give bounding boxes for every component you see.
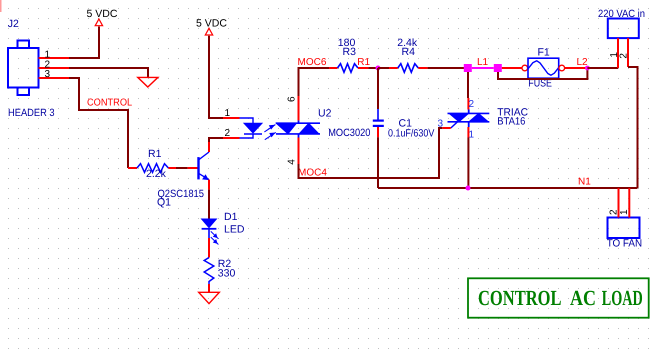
svg-text:2: 2 (618, 53, 629, 59)
power +5V symbol (left) (87, 8, 118, 26)
svg-text:2: 2 (609, 209, 620, 215)
svg-text:Q1: Q1 (157, 197, 171, 209)
wire triac MT1 to N1 (467, 138, 469, 189)
U2 pin 4 (287, 138, 299, 165)
svg-text:L1: L1 (477, 57, 489, 68)
svg-text:N1: N1 (578, 176, 591, 187)
capacitor C1 (373, 109, 435, 140)
svg-text:0.1uF/630V: 0.1uF/630V (388, 128, 434, 140)
wire J2 pin3 to R1 (69, 78, 128, 168)
U2 pin 1 (223, 108, 240, 119)
wire fuse bypass (under fuse) (498, 68, 587, 79)
node L1 junction square A (464, 64, 472, 72)
wire fuse right to L2 (565, 67, 586, 69)
wire L2 to 220VAC pin1 (587, 67, 618, 69)
resistor R3 (329, 37, 368, 72)
wire L1 to triac MT2 (467, 72, 469, 98)
wire J2 pin1 to +5V (69, 27, 99, 59)
J2 pin 1 (39, 50, 70, 61)
connector J2 (8, 41, 39, 96)
node L2 junction (585, 66, 590, 71)
fuse F1 (522, 47, 565, 90)
svg-text:CONTROL: CONTROL (87, 97, 133, 108)
wire C1 to N1 (377, 137, 379, 188)
svg-text:1: 1 (619, 209, 630, 215)
svg-text:MOC3020: MOC3020 (328, 127, 370, 139)
junction N1/triac (466, 186, 471, 191)
resistor R1 (128, 148, 176, 180)
svg-text:AC: AC (570, 286, 596, 310)
wire R4 to L1 (428, 67, 464, 69)
svg-text:LED: LED (224, 223, 245, 235)
wire N1 (378, 187, 638, 189)
junction R3/R4/C1 (376, 66, 381, 71)
svg-text:MOC4: MOC4 (298, 167, 327, 178)
svg-text:TO FAN: TO FAN (607, 238, 642, 250)
svg-text:BTA16: BTA16 (497, 115, 525, 127)
svg-text:R4: R4 (402, 46, 416, 58)
svg-text:5 VDC: 5 VDC (87, 8, 118, 20)
svg-text:2.2k: 2.2k (146, 168, 167, 180)
svg-text:R1: R1 (357, 57, 370, 68)
svg-text:CONTROL: CONTROL (478, 286, 562, 310)
svg-text:6: 6 (287, 96, 298, 102)
svg-text:4: 4 (287, 159, 298, 165)
svg-text:U2: U2 (318, 108, 332, 120)
node L1 junction square B (494, 64, 502, 72)
svg-text:F1: F1 (538, 47, 550, 59)
svg-text:MOC6: MOC6 (298, 57, 327, 68)
transistor Q1 (157, 142, 209, 209)
svg-text:2: 2 (469, 99, 475, 110)
svg-text:2: 2 (225, 128, 231, 139)
svg-text:LOAD: LOAD (602, 286, 643, 310)
resistor R4 (389, 37, 428, 72)
wire U2 pin6 to R3 (net MOC6) (299, 68, 330, 96)
wire 220VAC pin2 down to N1 level (628, 67, 638, 188)
wire R1 to Q1 base (176, 167, 188, 169)
U2 pin 2 (223, 128, 240, 139)
wire J2 pin2 to ground (69, 68, 148, 77)
U2 input LED (240, 118, 263, 138)
wire R3 to junction (368, 67, 378, 69)
svg-text:R1: R1 (148, 148, 162, 160)
svg-text:330: 330 (218, 268, 236, 280)
J2 pin 3 (39, 69, 70, 80)
power +5V symbol (middle) (196, 18, 227, 35)
svg-text:D1: D1 (224, 211, 238, 223)
U2 light arrows (264, 125, 275, 140)
svg-text:HEADER 3: HEADER 3 (8, 107, 55, 119)
svg-text:R3: R3 (343, 46, 357, 58)
svg-text:J2: J2 (8, 18, 19, 30)
svg-text:3: 3 (45, 69, 51, 80)
wire L1 (magenta segment) (472, 67, 494, 69)
wire U2 pin4 to triac gate (net MOC4) (299, 128, 443, 178)
svg-text:5 VDC: 5 VDC (196, 18, 227, 30)
U2 output photo-triac (276, 120, 320, 137)
U2 pin 6 (287, 96, 299, 120)
screen artifact top-left (0, 0, 2, 12)
connector 220 VAC in (598, 8, 645, 68)
D1 light arrows (211, 231, 219, 244)
J2 pin 2 (39, 59, 70, 70)
wire +5V to U2 pin1 (209, 36, 223, 118)
wire junction to R4 (378, 67, 389, 69)
triac BTA16 (438, 98, 529, 141)
svg-text:1: 1 (225, 108, 231, 119)
resistor R2 (204, 258, 235, 293)
ground symbol (near J2) (138, 77, 158, 87)
LED D1 (202, 211, 245, 258)
wire Q1 collector to U2 pin2 (209, 138, 223, 142)
wire L1 to fuse (502, 67, 522, 69)
wire junction to C1 (377, 68, 379, 109)
connector TO FAN (607, 188, 642, 250)
wire Q1 emitter to D1 (208, 190, 210, 219)
title box CONTROL AC LOAD (468, 278, 649, 317)
ground symbol (below R2) (199, 292, 220, 303)
